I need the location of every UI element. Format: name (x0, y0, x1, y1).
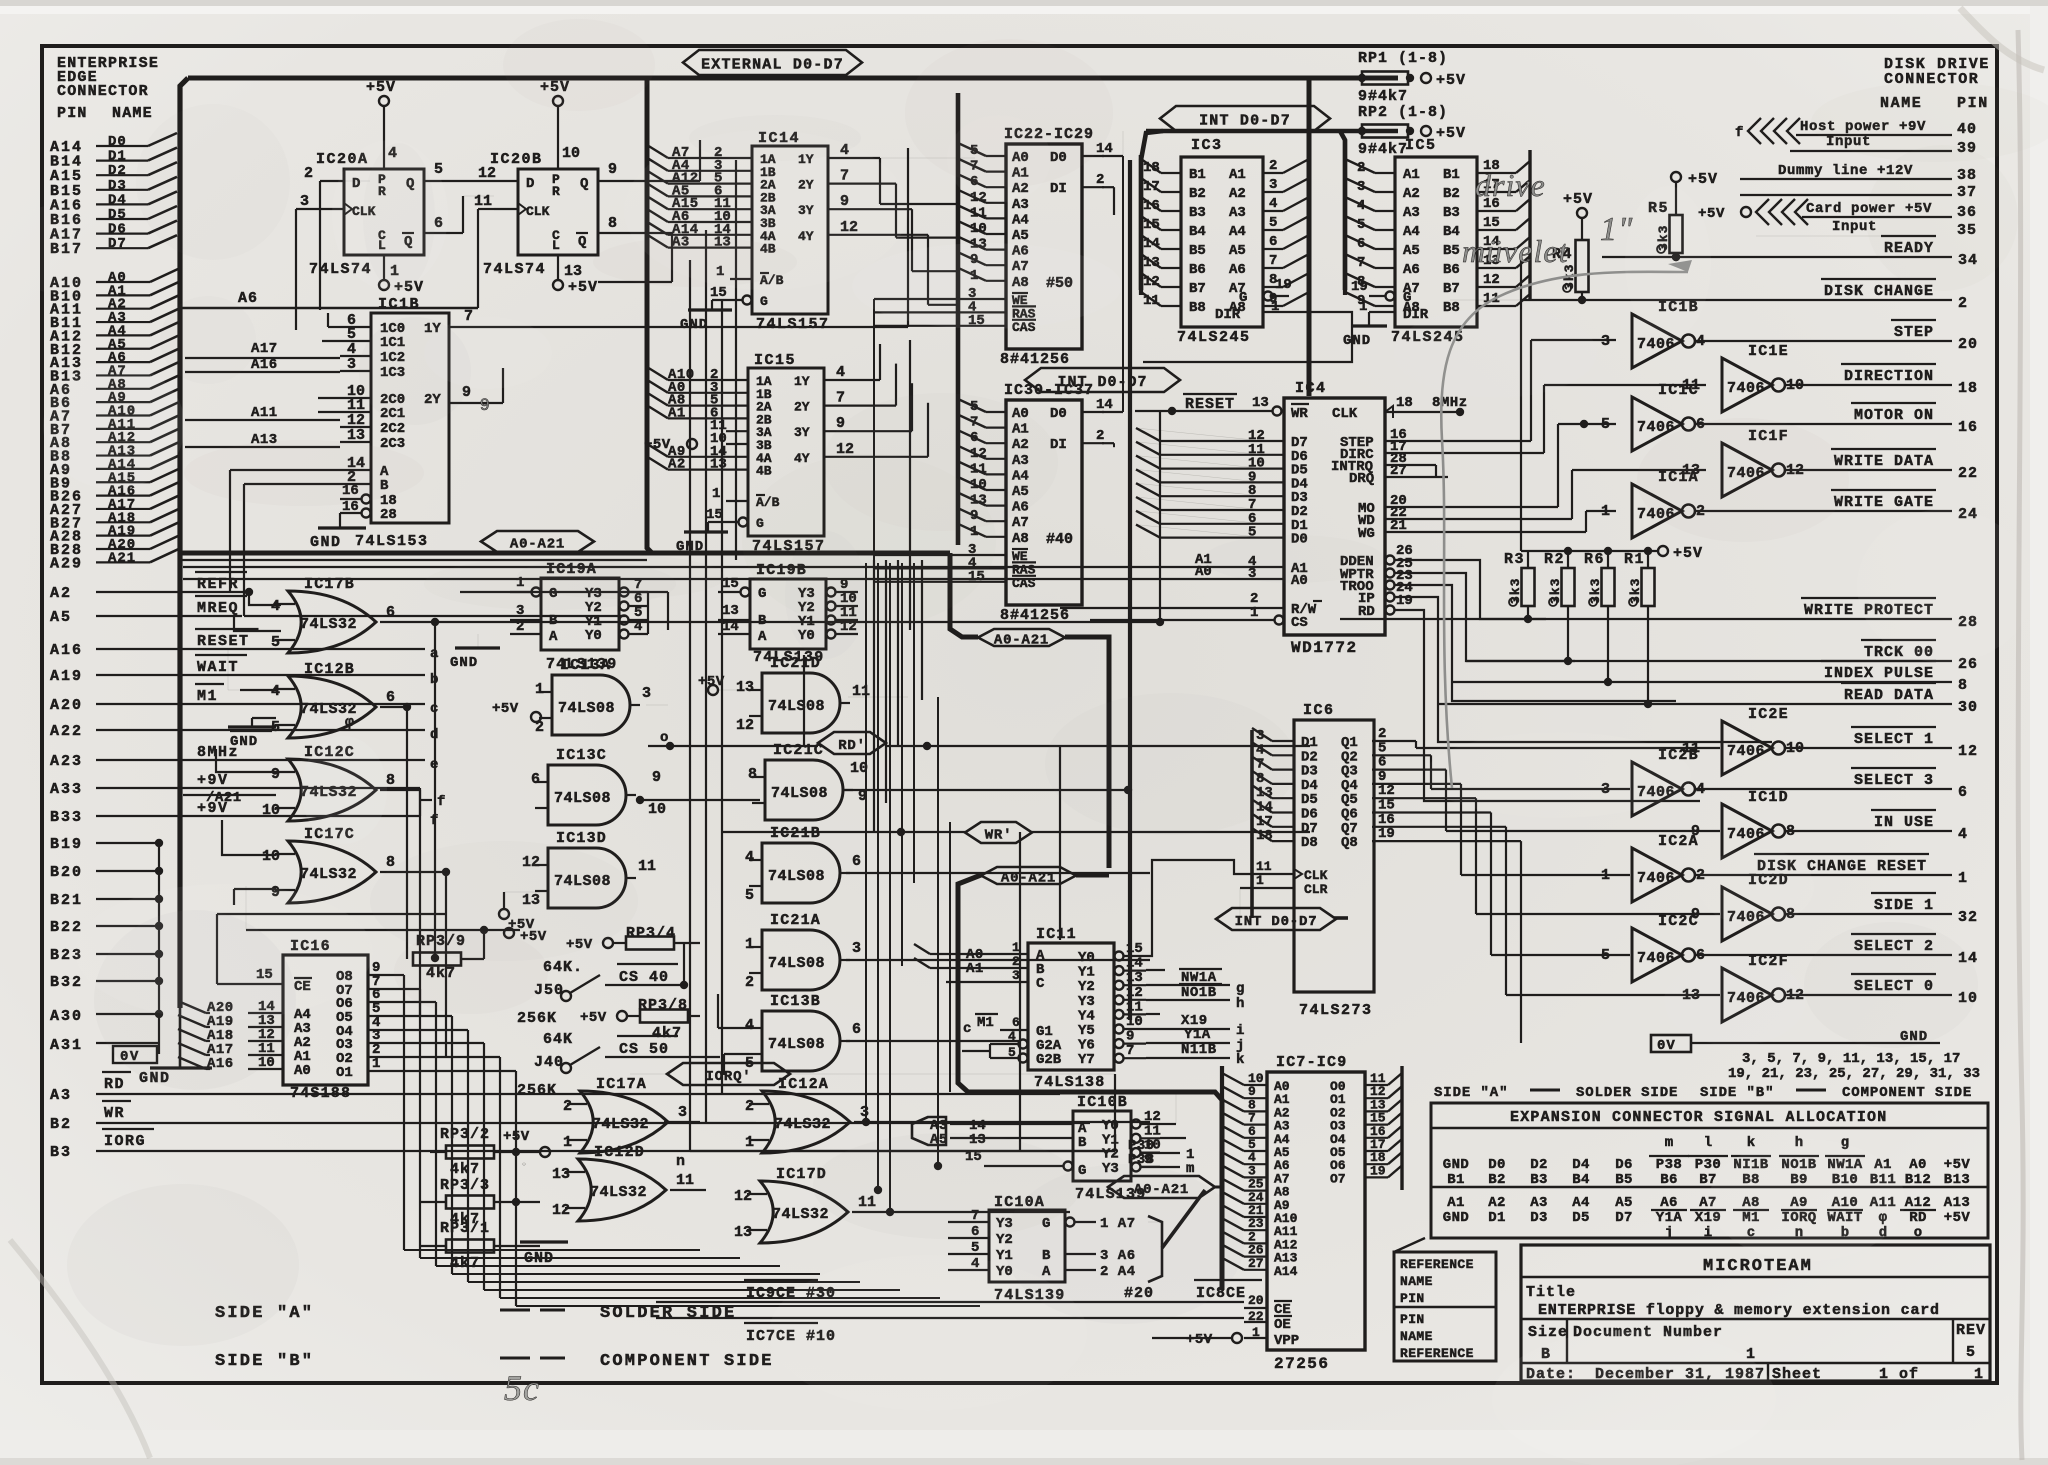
R4 pullup resistor (1577, 208, 1587, 218)
IC16 74S188 PROM (283, 955, 368, 1085)
svg-text:+5V: +5V (1944, 1157, 1971, 1173)
svg-text:i: i (1704, 1225, 1712, 1241)
svg-text:Y2: Y2 (1078, 979, 1095, 995)
svg-text:+5V: +5V (1436, 72, 1466, 89)
svg-text:IC1C: IC1C (1658, 382, 1699, 399)
svg-text:RD: RD (1358, 604, 1375, 620)
svg-text:3: 3 (300, 193, 309, 210)
svg-text:R3: R3 (1504, 551, 1525, 568)
svg-text:13: 13 (347, 427, 365, 444)
svg-text:74LS74: 74LS74 (483, 261, 546, 278)
ground symbol IC19A (455, 646, 500, 649)
svg-text:G: G (1403, 290, 1411, 306)
long horizontal wires upper-mid (180, 559, 647, 561)
svg-text:B2: B2 (1488, 1172, 1506, 1188)
svg-text:30: 30 (1958, 699, 1978, 716)
IC19A 74LS139 (541, 578, 619, 650)
svg-text:RP3/8: RP3/8 (638, 997, 688, 1014)
svg-text:6: 6 (531, 771, 540, 788)
svg-text:IC21C: IC21C (773, 742, 824, 759)
svg-text:DIRECTION: DIRECTION (1844, 368, 1934, 385)
chevron arrows power input (1756, 199, 1769, 225)
svg-text:B: B (549, 613, 558, 629)
inverter IC1C 7406 (1632, 397, 1682, 451)
svg-text:B3: B3 (1530, 1172, 1548, 1188)
svg-text:7406: 7406 (1727, 380, 1765, 397)
svg-text:D6: D6 (108, 222, 127, 238)
svg-text:A0-A21: A0-A21 (510, 537, 565, 553)
AND gate IC21B 74LS08 (762, 843, 840, 903)
svg-text:6: 6 (1958, 784, 1968, 801)
svg-text:4: 4 (836, 364, 845, 381)
svg-text:2: 2 (1096, 172, 1104, 188)
svg-text:IC10B: IC10B (1077, 1094, 1128, 1111)
svg-text:INDEX PULSE: INDEX PULSE (1824, 665, 1934, 682)
svg-text:B7: B7 (1189, 281, 1206, 297)
svg-text:74LS153: 74LS153 (355, 533, 429, 550)
IC7CE select line (656, 1317, 1244, 1319)
IC6 CLK CLR pins (1294, 869, 1302, 879)
svg-text:15: 15 (710, 285, 727, 301)
svg-text:B7: B7 (1443, 281, 1460, 297)
svg-text:7: 7 (1269, 253, 1277, 269)
svg-text:CS: CS (1291, 615, 1308, 631)
OR gate IC17C 74LS32 (288, 841, 376, 903)
svg-text:5: 5 (1601, 416, 1610, 433)
svg-text:READ DATA: READ DATA (1844, 687, 1934, 704)
svg-text:DI: DI (1050, 181, 1067, 197)
svg-text:m: m (1665, 1135, 1673, 1151)
svg-text:4: 4 (745, 849, 754, 866)
svg-text:2: 2 (745, 974, 754, 991)
svg-text:R6: R6 (1584, 551, 1605, 568)
inverter IC2A 7406 (1632, 848, 1682, 902)
svg-text:GND: GND (1443, 1210, 1469, 1226)
svg-text:GND: GND (1343, 333, 1371, 349)
svg-text:A4: A4 (1403, 224, 1420, 240)
svg-text:74LS245: 74LS245 (1177, 329, 1251, 346)
svg-text:l: l (1704, 1135, 1712, 1151)
svg-text:9: 9 (1126, 1029, 1134, 1045)
svg-text:74LS32: 74LS32 (772, 1206, 829, 1223)
svg-text:D: D (526, 176, 534, 192)
svg-text:IC12D: IC12D (594, 1144, 645, 1161)
svg-text:15: 15 (706, 507, 723, 523)
svg-text:19: 19 (1275, 277, 1292, 293)
muxed address bus vertical (956, 93, 961, 545)
svg-text:IC5: IC5 (1405, 137, 1437, 154)
expansion connector signal allocation table (1431, 1103, 1988, 1238)
svg-text:10: 10 (262, 802, 280, 819)
svg-text:B: B (758, 613, 767, 629)
vertical wire channel center (735, 160, 737, 560)
AND gate IC13B 74LS08 (762, 1011, 840, 1071)
svg-text:GND: GND (230, 734, 258, 750)
bus stub to 27256 hex (1215, 1186, 1222, 1189)
hex tag WR' (965, 822, 1032, 843)
svg-text:Q8: Q8 (1341, 835, 1358, 851)
IC4 CLK pin with 8MHz (1385, 406, 1393, 418)
wire cluster bottom runs (404, 1249, 700, 1251)
svg-text:IC13D: IC13D (556, 830, 607, 847)
svg-text:13: 13 (552, 1166, 570, 1183)
svg-text:2: 2 (304, 165, 313, 182)
OR gate IC12D 74LS32 (578, 1159, 666, 1221)
svg-text:M1: M1 (977, 1015, 994, 1031)
svg-text:D2: D2 (108, 163, 127, 179)
OR gate IC17D 74LS32 (760, 1181, 848, 1243)
wires IC1B outputs (449, 326, 908, 328)
svg-text:A5: A5 (1615, 1195, 1633, 1211)
svg-text:B3: B3 (50, 1144, 72, 1161)
svg-text:drive: drive (1475, 167, 1546, 203)
svg-text:INT D0-D7: INT D0-D7 (1235, 914, 1318, 930)
slant bundle IC5 left (1345, 159, 1375, 173)
svg-text:+5V: +5V (1944, 1210, 1971, 1226)
svg-text:CS 40: CS 40 (619, 969, 669, 986)
svg-text:3: 3 (1012, 968, 1020, 983)
svg-text:1: 1 (1012, 940, 1020, 955)
svg-text:2: 2 (563, 1098, 572, 1115)
IC7-IC9 27256 EPROM (1267, 1072, 1365, 1350)
svg-text:1: 1 (745, 936, 754, 953)
svg-text:D0: D0 (1050, 406, 1067, 422)
svg-text:10: 10 (1126, 1014, 1143, 1030)
svg-text:B2: B2 (50, 1116, 72, 1133)
svg-text:21: 21 (1390, 518, 1407, 534)
svg-text:NAME: NAME (112, 105, 153, 122)
wire staircase below IC17C (217, 913, 446, 915)
svg-text:B4: B4 (1189, 224, 1206, 240)
scan smudges (593, 237, 797, 287)
svg-text:74LS08: 74LS08 (768, 698, 825, 715)
svg-text:14: 14 (1126, 956, 1143, 972)
svg-text:müvelet: müvelet (1462, 233, 1569, 269)
svg-text:1: 1 (1601, 867, 1610, 884)
svg-text:WRITE GATE: WRITE GATE (1834, 494, 1934, 511)
svg-text:A8: A8 (1012, 531, 1029, 547)
svg-text:1: 1 (712, 486, 720, 502)
hex tag A0-A21 left (481, 531, 594, 552)
svg-text:11: 11 (638, 858, 656, 875)
svg-text:4: 4 (271, 683, 280, 700)
svg-text:19: 19 (1396, 593, 1413, 609)
svg-text:IC12A: IC12A (778, 1076, 829, 1093)
svg-text:INT D0-D7: INT D0-D7 (1057, 374, 1147, 391)
svg-text:A6: A6 (1660, 1195, 1678, 1211)
svg-text:Y4: Y4 (1078, 1008, 1095, 1024)
svg-text:74LS32: 74LS32 (300, 701, 357, 718)
R5 pullup resistor (1671, 172, 1681, 182)
OR gate IC12A 74LS32 (762, 1091, 850, 1153)
svg-text:A2: A2 (50, 585, 72, 602)
svg-text:A16: A16 (50, 642, 83, 659)
IC6 74LS273 latch (1294, 720, 1374, 992)
svg-text:B6: B6 (1660, 1172, 1678, 1188)
svg-text:SELECT 1: SELECT 1 (1854, 731, 1934, 748)
svg-text:N11B: N11B (1181, 1042, 1217, 1058)
svg-text:Y7: Y7 (1078, 1052, 1095, 1068)
svg-text:IC2E: IC2E (1748, 706, 1789, 723)
svg-text:4: 4 (1008, 1029, 1016, 1044)
svg-text:REFERENCE: REFERENCE (1400, 1257, 1474, 1272)
wire channel verticals left (434, 622, 436, 958)
svg-text:27256: 27256 (1274, 1355, 1330, 1373)
svg-text:19: 19 (1378, 826, 1395, 842)
svg-text:A1: A1 (1229, 167, 1246, 183)
svg-text:12: 12 (1958, 743, 1978, 760)
svg-text:D4: D4 (1572, 1157, 1590, 1173)
svg-text:SIDE "B": SIDE "B" (1700, 1085, 1774, 1101)
svg-text:28: 28 (380, 507, 397, 523)
svg-text:6: 6 (386, 604, 395, 621)
svg-text:74LS32: 74LS32 (774, 1116, 831, 1133)
ground symbol IC15 (684, 530, 728, 533)
svg-text:74LS32: 74LS32 (300, 866, 357, 883)
flip-flop IC20B 74LS74 (518, 169, 598, 255)
svg-text:5: 5 (1601, 947, 1610, 964)
svg-text:O1: O1 (336, 1065, 353, 1081)
svg-text:A6: A6 (1229, 262, 1246, 278)
svg-text:6: 6 (852, 853, 861, 870)
svg-text:DRQ: DRQ (1349, 471, 1374, 487)
svg-text:1 of: 1 of (1879, 1366, 1919, 1383)
svg-text:IC1D: IC1D (1748, 789, 1789, 806)
svg-text:RP3/2: RP3/2 (440, 1126, 490, 1143)
IC4 WD1772 floppy controller (1284, 398, 1385, 635)
inverter IC2C 7406 (1632, 928, 1682, 982)
svg-text:f: f (437, 794, 447, 810)
svg-text:B1: B1 (1447, 1172, 1465, 1188)
IC3 DIR wire (1143, 312, 1352, 362)
svg-text:6: 6 (1012, 1015, 1020, 1030)
AND gate IC13D 74LS08 (548, 848, 626, 908)
svg-text:3: 3 (852, 940, 861, 957)
wires IC15 outputs to DRAM address bus (848, 379, 880, 381)
svg-text:MREQ: MREQ (197, 600, 239, 617)
IC5 74LS245 (1395, 157, 1477, 327)
svg-text:i: i (1236, 1023, 1244, 1039)
svg-text:NAME: NAME (1400, 1274, 1433, 1289)
svg-text:9: 9 (271, 766, 280, 783)
svg-text:1: 1 (535, 681, 544, 698)
svg-text:IORQ': IORQ' (705, 1069, 751, 1085)
svg-text:64K: 64K (543, 1031, 573, 1048)
svg-text:RP3/1: RP3/1 (440, 1220, 490, 1237)
wires DRAM data out (1102, 155, 1123, 157)
svg-text:RESET: RESET (197, 633, 250, 650)
svg-text:#40: #40 (1046, 531, 1073, 548)
IC10B 74LS139 half (1073, 1111, 1131, 1181)
svg-text:D1: D1 (1488, 1210, 1506, 1226)
svg-text:0V: 0V (1657, 1038, 1676, 1054)
svg-text:IC13B: IC13B (770, 993, 821, 1010)
svg-text:11: 11 (474, 193, 492, 210)
inverter IC1E 7406 (1722, 358, 1772, 412)
svg-text:SIDE "B": SIDE "B" (215, 1352, 314, 1371)
svg-text:A6: A6 (238, 290, 258, 307)
hex tag INT D0-D7 middle (1025, 368, 1180, 392)
svg-text:k: k (1236, 1052, 1244, 1068)
svg-text:D4: D4 (108, 192, 127, 208)
svg-text:Q: Q (580, 176, 588, 192)
wires IC4 right to gates/connector (1408, 440, 1531, 442)
OR gate IC17B 74LS32 (288, 591, 376, 653)
merge pentagon IC10A to bus (1148, 1216, 1162, 1282)
svg-text:A5: A5 (1403, 243, 1420, 259)
svg-text:3, 5, 7, 9, 11, 13, 15, 17: 3, 5, 7, 9, 11, 13, 15, 17 (1742, 1051, 1960, 1067)
svg-text:/A21: /A21 (206, 790, 242, 806)
svg-text:13: 13 (1252, 395, 1269, 411)
svg-text:+5V: +5V (1436, 125, 1466, 142)
svg-text:NO1B: NO1B (1181, 985, 1217, 1001)
vertical channel right of gates (865, 563, 867, 1122)
svg-text:IC15: IC15 (754, 352, 796, 369)
svg-text:IC21A: IC21A (770, 912, 821, 929)
svg-text:10: 10 (648, 801, 666, 818)
svg-text:A1: A1 (1447, 1195, 1465, 1211)
svg-text:RD': RD' (838, 738, 866, 754)
svg-text:19, 21, 23, 25, 27, 29, 31, 33: 19, 21, 23, 25, 27, 29, 31, 33 (1728, 1066, 1980, 1082)
svg-text:9#4k7: 9#4k7 (1358, 88, 1408, 105)
svg-text:B2: B2 (1189, 186, 1206, 202)
svg-text:IN USE: IN USE (1874, 814, 1934, 831)
svg-text:A2: A2 (1229, 186, 1246, 202)
svg-text:5: 5 (1008, 1045, 1016, 1060)
svg-text:+9V: +9V (197, 772, 229, 789)
svg-text:B3: B3 (1443, 205, 1460, 221)
svg-text:2: 2 (1096, 428, 1104, 444)
svg-text:REV: REV (1956, 1322, 1986, 1339)
svg-text:A31: A31 (50, 1037, 83, 1054)
svg-text:1: 1 (1271, 299, 1279, 315)
svg-text:5: 5 (971, 1240, 979, 1256)
svg-text:D6: D6 (1615, 1157, 1633, 1173)
IC15 74LS157 (748, 368, 824, 536)
svg-text:1: 1 (745, 1134, 754, 1151)
svg-text:B8: B8 (1189, 300, 1206, 316)
hex tag A0-A21 mid2 (981, 867, 1076, 884)
svg-text:A29: A29 (50, 555, 83, 572)
svg-text:WRITE DATA: WRITE DATA (1834, 453, 1934, 470)
svg-text:9: 9 (652, 769, 661, 786)
svg-text:4: 4 (634, 619, 642, 635)
svg-text:WG: WG (1358, 526, 1375, 542)
svg-text:COMPONENT SIDE: COMPONENT SIDE (600, 1352, 774, 1371)
svg-text:8: 8 (386, 772, 395, 789)
svg-text:DIR: DIR (1215, 307, 1241, 323)
svg-text:22: 22 (1958, 465, 1978, 482)
edge connector bus (left vertical trunk) (180, 78, 188, 1008)
svg-text:2: 2 (1958, 295, 1968, 312)
inverter IC2E 7406 (1722, 721, 1772, 775)
svg-text:Sheet: Sheet (1772, 1366, 1822, 1383)
svg-text:12: 12 (478, 165, 496, 182)
svg-text:B12: B12 (1905, 1172, 1931, 1188)
bus trunk down to IC3 A side (1307, 78, 1312, 396)
svg-text:14: 14 (1096, 397, 1113, 413)
svg-text:REFERENCE: REFERENCE (1400, 1346, 1474, 1361)
svg-text:Y0: Y0 (1078, 950, 1095, 966)
svg-text:4: 4 (271, 598, 280, 615)
OR gate IC12C 74LS32 (288, 759, 376, 821)
svg-text:CLK: CLK (526, 204, 550, 219)
svg-text:A3: A3 (1229, 205, 1246, 221)
svg-text:NAME: NAME (1400, 1329, 1433, 1344)
svg-text:PIN: PIN (1400, 1312, 1425, 1327)
svg-text:j: j (1665, 1225, 1673, 1241)
svg-text:RD: RD (104, 1076, 125, 1093)
svg-text:CS 50: CS 50 (619, 1041, 669, 1058)
ground symbol IC14 (688, 308, 732, 311)
0V / GND ground pins list (1651, 1035, 1691, 1052)
svg-text:IC13C: IC13C (556, 747, 607, 764)
svg-text:Y3: Y3 (1078, 994, 1095, 1010)
svg-text:12: 12 (1126, 985, 1143, 1001)
svg-text:2: 2 (1012, 954, 1020, 969)
svg-text:WAIT: WAIT (197, 659, 239, 676)
svg-text:74LS32: 74LS32 (592, 1116, 649, 1133)
IC14 74LS157 (752, 146, 828, 314)
svg-text:15: 15 (1126, 941, 1143, 957)
wires IC4 status inputs from connector rows (1412, 560, 1546, 619)
svg-text:13: 13 (564, 263, 582, 280)
svg-text:A3: A3 (50, 1087, 72, 1104)
svg-text:B33: B33 (50, 809, 83, 826)
junction dots channel (862, 1118, 870, 1126)
svg-text:CONNECTOR: CONNECTOR (57, 83, 149, 100)
ground symbol IC1B (318, 526, 366, 529)
svg-text:7406: 7406 (1637, 870, 1675, 887)
bus INT D0-D7 top (1160, 106, 1330, 131)
svg-text:4: 4 (745, 1017, 754, 1034)
hex tag A0-A21 bottom (1108, 1176, 1215, 1198)
svg-text:7406: 7406 (1637, 419, 1675, 436)
svg-text:74LS273: 74LS273 (1299, 1002, 1373, 1019)
bus A0-A21 horizontal (180, 551, 950, 556)
svg-text:STEP: STEP (1894, 324, 1934, 341)
bus INT down to IC5 (1340, 131, 1345, 290)
svg-text:GND: GND (310, 534, 342, 551)
svg-text:A11: A11 (251, 405, 278, 421)
IC3 74LS245 (1181, 157, 1263, 327)
svg-text:+5V: +5V (366, 79, 396, 96)
svg-text:o: o (1914, 1225, 1922, 1241)
wires READY / DISK CHANGE feed (1520, 254, 1522, 551)
svg-text:12: 12 (552, 1202, 570, 1219)
svg-text:A30: A30 (50, 1008, 83, 1025)
merge pentagon A3/A5 (912, 1117, 946, 1145)
svg-text:A4: A4 (1572, 1195, 1590, 1211)
svg-text:A5: A5 (1012, 228, 1029, 244)
svg-text:A22: A22 (50, 723, 83, 740)
svg-text:IC2C: IC2C (1658, 913, 1699, 930)
title block (1521, 1245, 1990, 1381)
svg-text:P30: P30 (1695, 1157, 1721, 1173)
svg-text:74LS32: 74LS32 (590, 1184, 647, 1201)
svg-text:8#41256: 8#41256 (1000, 351, 1070, 368)
svg-text:D5: D5 (108, 207, 127, 223)
svg-text:12: 12 (734, 1188, 752, 1205)
svg-text:M1: M1 (197, 688, 218, 705)
svg-text:B2: B2 (1443, 186, 1460, 202)
wires IC14 outputs to DRAM address bus (852, 157, 975, 159)
IC8CE select line (656, 1301, 1244, 1303)
svg-text:B3: B3 (1189, 205, 1206, 221)
bus A0-A21 snake center (950, 553, 978, 637)
svg-text:B1: B1 (1443, 167, 1460, 183)
svg-text:n: n (676, 1153, 685, 1170)
